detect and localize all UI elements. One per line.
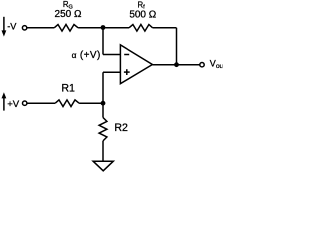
- terminal -V: [22, 26, 26, 30]
- output wire: [152, 64, 199, 66]
- wire: [102, 141, 104, 161]
- svg-text:+V: +V: [7, 99, 20, 110]
- op-amp minus pin mark: [124, 54, 129, 56]
- resistor R2: [99, 118, 107, 141]
- svg-text:250 Ω: 250 Ω: [55, 9, 82, 20]
- wire: [102, 103, 104, 117]
- wire: [103, 54, 120, 56]
- scan crop whiteout at right edge: [222, 54, 226, 72]
- svg-text:R1: R1: [61, 83, 75, 95]
- resistor RG: [54, 25, 78, 32]
- op-amp U1: [120, 45, 152, 84]
- terminal Vout: [200, 62, 204, 66]
- resistor R1: [55, 100, 79, 107]
- op-amp plus pin mark: [124, 69, 130, 75]
- svg-text:α(+V): α(+V): [72, 50, 101, 61]
- wire: [102, 72, 104, 103]
- svg-text:R2: R2: [114, 122, 128, 134]
- svg-text:500 Ω: 500 Ω: [129, 9, 156, 20]
- node junction (inverting input net): [101, 25, 106, 30]
- -V supply arrow: [2, 17, 7, 37]
- +V supply arrow: [2, 92, 7, 110]
- wire: [102, 28, 104, 55]
- node junction (non-inverting input net): [101, 101, 106, 106]
- svg-text:-V: -V: [7, 21, 17, 31]
- wire: [103, 71, 120, 73]
- wire: [27, 102, 55, 104]
- ground: [93, 161, 113, 171]
- wire: [176, 28, 178, 65]
- wire: [153, 27, 177, 29]
- resistor RF: [129, 25, 153, 32]
- wire: [79, 102, 103, 104]
- wire: [27, 27, 54, 29]
- terminal +V: [23, 101, 27, 105]
- output node: [174, 62, 179, 67]
- wire: [78, 27, 129, 29]
